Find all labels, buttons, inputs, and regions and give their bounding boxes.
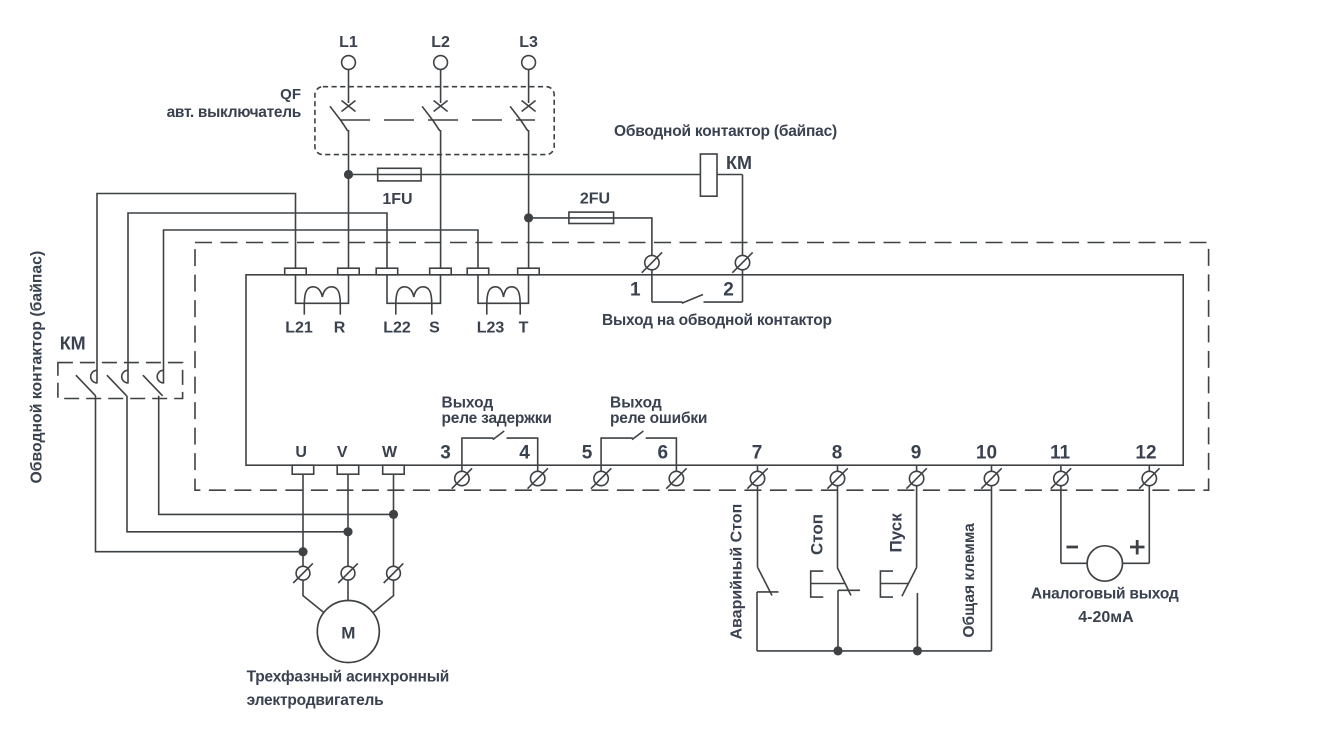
circuit breaker QF enclosure xyxy=(315,87,554,155)
svg-text:реле задержки: реле задержки xyxy=(442,410,552,427)
svg-text:T: T xyxy=(519,319,529,336)
svg-text:R: R xyxy=(334,319,346,336)
junction U xyxy=(298,547,307,556)
delay relay contact 3-4 xyxy=(462,431,538,479)
svg-text:Общая клемма: Общая клемма xyxy=(961,523,978,638)
svg-text:S: S xyxy=(429,319,440,336)
svg-text:Трехфазный асинхронный: Трехфазный асинхронный xyxy=(247,669,449,686)
stop button xyxy=(811,568,860,651)
svg-text:Выход на обводной контактор: Выход на обводной контактор xyxy=(602,312,832,329)
error relay contact 5-6 xyxy=(601,431,676,479)
wire bypass pole3 to W xyxy=(159,396,394,515)
svg-text:4-20мА: 4-20мА xyxy=(1078,609,1134,626)
terminal V xyxy=(337,465,359,474)
wire coil KM to terminal 2 xyxy=(742,175,744,303)
breaker QF pole 1 xyxy=(330,101,356,175)
phase 2 input coil xyxy=(387,275,441,315)
motor terminal V xyxy=(338,563,358,583)
fuse 1FU xyxy=(378,168,421,181)
wire bypass pole2 to V xyxy=(127,396,348,532)
svg-text:L3: L3 xyxy=(519,34,538,51)
svg-text:Стоп: Стоп xyxy=(808,514,827,555)
wire L1 to breaker xyxy=(348,69,350,103)
analog output meter xyxy=(1087,546,1122,581)
terminal 7 xyxy=(747,443,767,489)
svg-text:Аналоговый выход: Аналоговый выход xyxy=(1031,586,1179,603)
svg-text:10: 10 xyxy=(976,443,997,464)
wire W to motor xyxy=(372,474,394,613)
svg-text:Пуск: Пуск xyxy=(887,513,906,553)
svg-text:8: 8 xyxy=(832,443,843,464)
node L3 xyxy=(519,34,538,69)
svg-text:L1: L1 xyxy=(339,34,358,51)
svg-text:4: 4 xyxy=(519,443,530,464)
motor M xyxy=(317,601,379,663)
terminal 1 xyxy=(630,252,662,300)
terminal L22 xyxy=(376,268,398,275)
svg-text:L2: L2 xyxy=(431,34,450,51)
start button xyxy=(880,568,917,651)
wire loop line 2 to L22 xyxy=(128,213,387,384)
svg-text:U: U xyxy=(295,444,307,461)
terminal 9 xyxy=(906,443,926,489)
svg-text:7: 7 xyxy=(752,443,763,464)
terminal 2 xyxy=(723,252,752,300)
bypass contact pole 1 xyxy=(76,370,97,396)
svg-text:Обводной контактор (байпас): Обводной контактор (байпас) xyxy=(29,251,46,484)
terminal T xyxy=(518,268,540,275)
bypass contact pole 3 xyxy=(143,370,164,396)
terminal R xyxy=(338,268,360,275)
terminal 12 xyxy=(1135,443,1159,489)
common wire bus xyxy=(757,650,992,652)
motor terminal U xyxy=(293,563,313,583)
wire L2 to breaker xyxy=(440,69,442,103)
breaker QF pole 3 xyxy=(510,101,535,218)
svg-text:11: 11 xyxy=(1050,443,1071,464)
contactor coil KM xyxy=(700,154,717,196)
motor terminal W xyxy=(384,563,404,583)
svg-text:2: 2 xyxy=(723,280,734,301)
terminal 6 xyxy=(658,443,687,489)
svg-text:Обводной контактор (байпас): Обводной контактор (байпас) xyxy=(614,123,837,140)
junction V xyxy=(343,527,352,536)
breaker linkage xyxy=(340,119,535,121)
wire loop line 1 to L21 xyxy=(97,194,296,384)
analog output wires xyxy=(1061,562,1149,564)
svg-text:6: 6 xyxy=(658,443,669,464)
wire U to motor xyxy=(303,474,325,613)
svg-text:W: W xyxy=(382,444,398,461)
wire V to motor xyxy=(347,474,349,600)
wire T post xyxy=(528,218,530,268)
svg-text:9: 9 xyxy=(911,443,922,464)
svg-text:1: 1 xyxy=(630,280,641,301)
junction dot L3/2FU xyxy=(524,213,533,222)
svg-text:3: 3 xyxy=(440,443,451,464)
svg-text:Аварийный Стоп: Аварийный Стоп xyxy=(729,504,746,640)
terminal U xyxy=(292,465,314,474)
svg-text:Выход: Выход xyxy=(610,395,662,412)
control terminal stubs 7-12 xyxy=(758,465,1150,651)
svg-text:1FU: 1FU xyxy=(382,191,412,208)
terminal S xyxy=(430,268,452,275)
svg-text:авт. выключатель: авт. выключатель xyxy=(167,104,301,121)
fuse 2FU xyxy=(569,212,614,223)
phase 3 input coil xyxy=(478,275,529,315)
terminal 4 xyxy=(519,443,548,489)
svg-text:L23: L23 xyxy=(477,319,505,336)
bypass output contact 1-2 xyxy=(652,295,743,304)
svg-text:реле ошибки: реле ошибки xyxy=(610,410,707,427)
terminal 8 xyxy=(827,443,847,489)
svg-text:КМ: КМ xyxy=(60,334,86,354)
svg-text:2FU: 2FU xyxy=(580,191,610,208)
wire terminal 1 lead xyxy=(651,255,653,302)
terminal 10 xyxy=(976,443,1002,489)
junction W xyxy=(389,510,398,519)
bypass contactor KM block xyxy=(29,251,183,484)
wire L3 to breaker xyxy=(528,69,530,103)
svg-text:5: 5 xyxy=(582,443,593,464)
emergency stop button xyxy=(757,568,779,651)
wire 2FU line xyxy=(529,218,652,255)
terminal 11 xyxy=(1050,443,1071,489)
node L1 xyxy=(339,34,358,69)
terminal 3 xyxy=(440,443,472,489)
svg-text:Выход: Выход xyxy=(442,395,494,412)
junction stop bus xyxy=(833,646,842,655)
terminal 5 xyxy=(582,443,612,489)
node L2 xyxy=(431,34,450,69)
terminal W xyxy=(383,465,405,474)
svg-text:L21: L21 xyxy=(285,319,313,336)
terminal L21 xyxy=(285,268,307,275)
svg-text:V: V xyxy=(337,444,348,461)
svg-text:М: М xyxy=(341,624,355,643)
plus sign xyxy=(1130,540,1145,555)
wire loop line 3 to L23 xyxy=(164,230,479,384)
minus sign xyxy=(1067,546,1079,549)
svg-text:L22: L22 xyxy=(383,319,411,336)
terminal L23 xyxy=(467,268,489,275)
phase 1 input coil xyxy=(296,275,349,315)
breaker QF pole 2 xyxy=(422,101,448,269)
svg-text:12: 12 xyxy=(1135,443,1156,464)
junction start bus xyxy=(913,646,922,655)
wire 1FU line to bypass coil xyxy=(349,174,743,176)
wire bypass pole1 to U xyxy=(96,396,304,552)
svg-text:QF: QF xyxy=(280,86,301,103)
svg-text:КМ: КМ xyxy=(726,153,752,173)
wire R post xyxy=(348,175,350,269)
svg-text:электродвигатель: электродвигатель xyxy=(247,692,384,709)
soft starter dashed enclosure xyxy=(195,243,1209,491)
soft starter body box xyxy=(246,275,1183,465)
junction dot L1/1FU xyxy=(344,170,353,179)
bypass contact pole 2 xyxy=(107,370,128,396)
